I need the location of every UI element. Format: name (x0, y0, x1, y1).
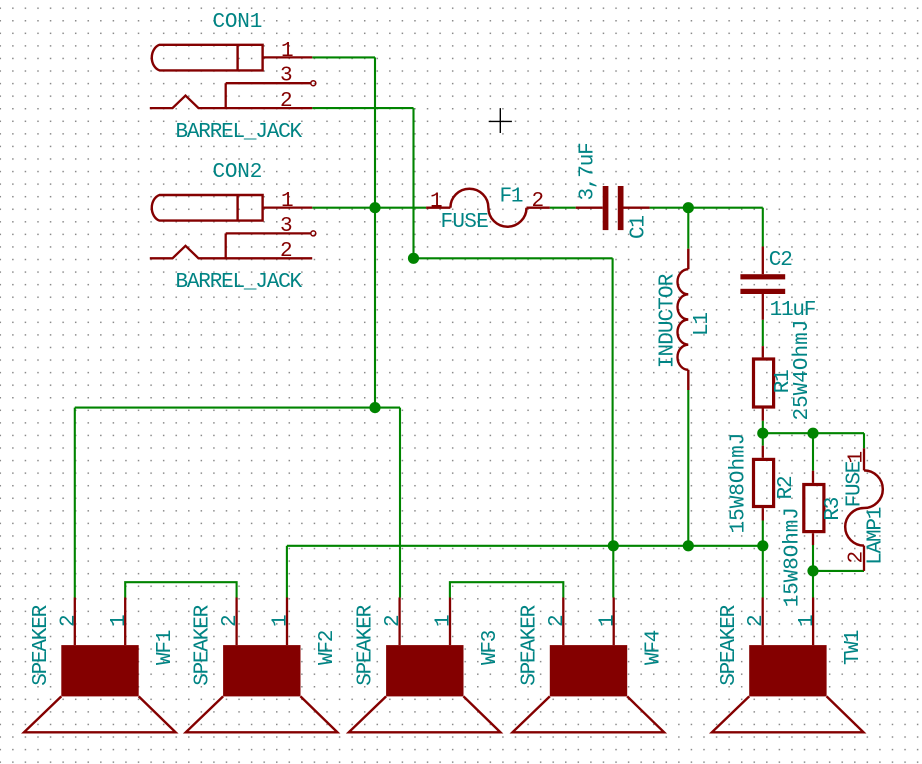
wire C2 to R1 (762, 320, 764, 346)
junction (683, 540, 694, 551)
wire FUSE1 bottom (813, 570, 864, 572)
wire R2 bottom (762, 521, 764, 546)
svg-text:1: 1 (430, 191, 443, 214)
capacitor C1 (576, 143, 651, 239)
svg-text:2: 2 (745, 614, 768, 627)
svg-text:WF1: WF1 (154, 630, 177, 665)
svg-text:2: 2 (219, 614, 242, 627)
svg-text:1: 1 (281, 40, 294, 63)
wire CON1.1 to vertical (312, 56, 375, 58)
svg-text:2: 2 (532, 190, 545, 213)
speaker WF3 (349, 598, 502, 733)
wire F1 to C1 (550, 207, 576, 209)
svg-text:2: 2 (382, 614, 405, 627)
junction (369, 202, 380, 213)
wire R1 to junction (762, 421, 764, 434)
connector CON2 barrel jack (150, 195, 316, 258)
junction (807, 428, 818, 439)
junction (683, 202, 694, 213)
svg-text:3: 3 (280, 215, 293, 238)
wire CON2.2 east (414, 257, 613, 259)
wire horizontal y407.6 (75, 407, 400, 409)
speaker WF2 (186, 598, 339, 733)
svg-text:2: 2 (845, 551, 868, 564)
svg-text:11uF: 11uF (770, 299, 816, 322)
svg-text:SPEAKER: SPEAKER (718, 604, 741, 685)
sheet origin crosshair (489, 108, 512, 133)
wire to WF4.1 (612, 546, 614, 598)
svg-text:R2: R2 (775, 476, 798, 499)
wire bridge WF1.1-WF2.2 (125, 582, 236, 597)
svg-text:2: 2 (57, 614, 80, 627)
junction (757, 428, 768, 439)
svg-text:SPEAKER: SPEAKER (518, 604, 541, 685)
wire to WF1.2 (74, 408, 76, 598)
svg-text:1: 1 (845, 451, 868, 464)
wire to TW1.1 (812, 571, 814, 598)
speaker TW1 (712, 598, 865, 733)
svg-text:15W8OhmJ: 15W8OhmJ (781, 507, 804, 607)
svg-text:F1: F1 (500, 185, 523, 208)
wire to WF2.1 (286, 546, 288, 598)
fuse F1 (426, 189, 550, 227)
speaker WF1 (24, 598, 177, 733)
wire R3 top (812, 433, 814, 471)
speaker WF4 (513, 598, 666, 733)
fuse FUSE1 / lamp LAMP1 (844, 448, 888, 571)
wire down to C2 (762, 208, 764, 247)
wire vertical x612.6 (612, 258, 614, 546)
inductor L1 (656, 249, 714, 390)
svg-text:SPEAKER: SPEAKER (192, 604, 215, 685)
wire bus y545.8 (287, 545, 763, 547)
junction (757, 540, 768, 551)
svg-text:3,7uF: 3,7uF (577, 143, 600, 201)
svg-text:C1: C1 (628, 216, 651, 239)
svg-text:INDUCTOR: INDUCTOR (656, 273, 679, 368)
junction (608, 540, 619, 551)
capacitor C2 (740, 247, 815, 322)
junction (369, 402, 380, 413)
resistor R1 (754, 320, 815, 421)
wire to FUSE1 top (863, 433, 865, 448)
wire L1 to bus (687, 390, 689, 546)
wire R3 bottom (812, 545, 814, 571)
svg-text:FUSE: FUSE (844, 461, 867, 507)
svg-text:SPEAKER: SPEAKER (30, 604, 53, 685)
resistor R3 (781, 471, 845, 608)
svg-text:1: 1 (281, 190, 294, 213)
svg-text:SPEAKER: SPEAKER (355, 604, 378, 685)
svg-text:2: 2 (546, 614, 569, 627)
wire junction row y433.2 (763, 432, 864, 434)
svg-text:1: 1 (433, 614, 456, 627)
svg-text:L1: L1 (691, 313, 714, 336)
wire CON2.1 to fuse F1 (312, 207, 426, 209)
wire C1 to C2 branch (650, 207, 763, 209)
svg-text:BARREL_JACK: BARREL_JACK (176, 271, 303, 294)
wire C1 junction to L1 (687, 208, 689, 249)
svg-text:2: 2 (280, 90, 293, 113)
wire vertical x375 (374, 57, 376, 407)
wire bridge WF3.1-WF4.2 (450, 582, 563, 597)
wire to TW1.2 (762, 546, 764, 598)
connector CON1 barrel jack (150, 45, 316, 108)
svg-text:BARREL_JACK: BARREL_JACK (176, 121, 303, 144)
svg-text:TW1: TW1 (842, 630, 865, 665)
svg-text:2: 2 (280, 240, 293, 263)
svg-text:R3: R3 (822, 497, 845, 520)
svg-text:C2: C2 (769, 249, 792, 272)
svg-text:WF4: WF4 (643, 630, 666, 665)
svg-text:25W4OhmJ: 25W4OhmJ (791, 320, 814, 421)
svg-text:WF3: WF3 (479, 630, 502, 665)
wire vertical x413.5 (412, 108, 414, 258)
resistor R2 (728, 433, 799, 534)
svg-text:FUSE: FUSE (441, 211, 489, 234)
svg-text:3: 3 (280, 65, 293, 88)
svg-text:1: 1 (108, 614, 131, 627)
svg-text:CON2: CON2 (213, 161, 263, 184)
svg-text:1: 1 (596, 614, 619, 627)
svg-text:CON1: CON1 (213, 11, 263, 34)
wire to WF3.2 (399, 408, 401, 598)
junction (807, 565, 818, 576)
svg-text:1: 1 (796, 614, 819, 627)
svg-text:1: 1 (270, 614, 293, 627)
junction (408, 253, 419, 264)
wire CON1.2 to corner (312, 107, 413, 109)
svg-text:15W8OhmJ: 15W8OhmJ (728, 433, 751, 534)
svg-text:WF2: WF2 (316, 630, 339, 665)
